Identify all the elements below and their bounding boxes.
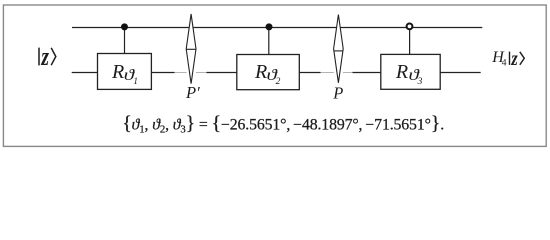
svg-text:R: R	[111, 61, 124, 83]
svg-text:R: R	[254, 61, 267, 83]
svg-text:z: z	[41, 42, 49, 70]
svg-text:2: 2	[276, 77, 281, 87]
svg-text:3: 3	[417, 77, 423, 87]
svg-text:P′: P′	[185, 83, 200, 102]
svg-text:z: z	[511, 47, 519, 70]
svg-text:P: P	[332, 84, 343, 103]
svg-text:R: R	[395, 61, 408, 83]
svg-text:{ϑ1, ϑ2, ϑ3} = {−26.5651°, −48: {ϑ1, ϑ2, ϑ3} = {−26.5651°, −48.1897°, −7…	[122, 112, 444, 135]
svg-text:4: 4	[502, 57, 507, 68]
svg-text:1: 1	[133, 77, 138, 87]
